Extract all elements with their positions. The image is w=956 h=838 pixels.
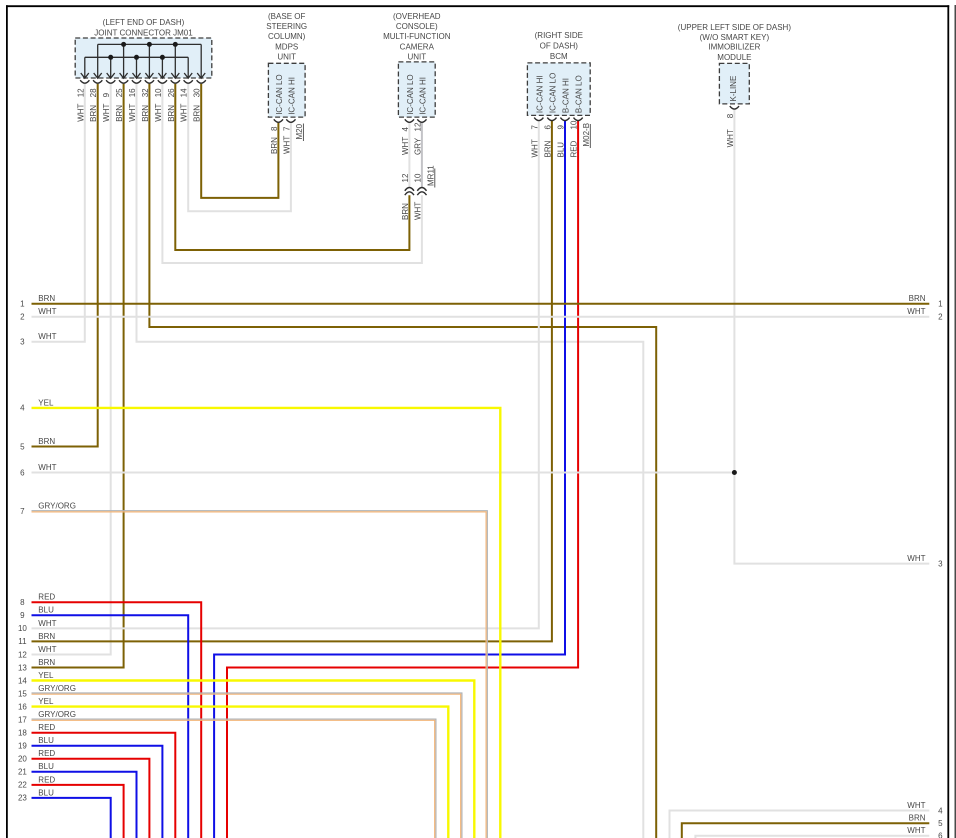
- svg-text:RED: RED: [38, 593, 55, 602]
- svg-text:WHT: WHT: [128, 103, 137, 121]
- svg-text:21: 21: [18, 768, 27, 777]
- svg-text:BLU: BLU: [557, 142, 566, 158]
- svg-text:11: 11: [18, 637, 27, 646]
- svg-text:1: 1: [938, 300, 943, 309]
- svg-text:6: 6: [20, 468, 25, 477]
- svg-text:12: 12: [76, 88, 85, 97]
- svg-text:GRY/ORG: GRY/ORG: [38, 684, 76, 693]
- svg-text:10: 10: [154, 88, 163, 97]
- svg-text:8: 8: [726, 113, 735, 118]
- svg-text:WHT: WHT: [907, 307, 925, 316]
- svg-text:B-CAN HI: B-CAN HI: [562, 78, 571, 113]
- svg-text:MR11: MR11: [426, 165, 435, 186]
- svg-text:BRN: BRN: [89, 105, 98, 122]
- svg-text:IC-CAN LO: IC-CAN LO: [548, 73, 557, 113]
- svg-text:BRN: BRN: [38, 294, 55, 303]
- svg-text:STEERING: STEERING: [266, 22, 307, 31]
- svg-text:BCM: BCM: [550, 52, 568, 61]
- svg-text:16: 16: [128, 88, 137, 97]
- svg-text:WHT: WHT: [413, 202, 422, 220]
- svg-text:12: 12: [401, 173, 410, 182]
- svg-text:BLU: BLU: [38, 788, 54, 797]
- svg-text:BRN: BRN: [909, 814, 926, 823]
- svg-text:BRN: BRN: [141, 105, 150, 122]
- svg-text:15: 15: [18, 689, 27, 698]
- svg-text:WHT: WHT: [401, 137, 410, 155]
- svg-text:CONSOLE): CONSOLE): [396, 22, 438, 31]
- svg-text:WHT: WHT: [907, 826, 925, 835]
- svg-text:OF DASH): OF DASH): [540, 42, 579, 51]
- svg-text:(W/O SMART KEY): (W/O SMART KEY): [700, 33, 770, 42]
- svg-text:2: 2: [20, 313, 25, 322]
- svg-text:4: 4: [20, 404, 25, 413]
- svg-text:9: 9: [557, 125, 566, 130]
- svg-text:M02-B: M02-B: [582, 123, 591, 147]
- svg-text:18: 18: [18, 729, 27, 738]
- svg-text:9: 9: [20, 611, 25, 620]
- svg-text:(UPPER LEFT SIDE OF DASH): (UPPER LEFT SIDE OF DASH): [678, 23, 792, 32]
- svg-text:MULTI-FUNCTION: MULTI-FUNCTION: [383, 32, 451, 41]
- svg-text:(LEFT END OF DASH): (LEFT END OF DASH): [103, 18, 185, 27]
- svg-text:WHT: WHT: [180, 103, 189, 121]
- svg-text:8: 8: [20, 598, 25, 607]
- svg-text:6: 6: [938, 832, 943, 838]
- svg-text:6: 6: [543, 125, 552, 130]
- svg-text:(BASE OF: (BASE OF: [268, 12, 305, 21]
- svg-text:RED: RED: [38, 775, 55, 784]
- svg-text:BRN: BRN: [38, 658, 55, 667]
- svg-text:YEL: YEL: [38, 398, 54, 407]
- svg-text:WHT: WHT: [907, 801, 925, 810]
- svg-text:COLUMN): COLUMN): [268, 32, 306, 41]
- svg-text:14: 14: [18, 676, 27, 685]
- svg-text:BRN: BRN: [543, 140, 552, 157]
- svg-text:WHT: WHT: [38, 332, 56, 341]
- svg-text:GRY/ORG: GRY/ORG: [38, 502, 76, 511]
- svg-text:GRY/ORG: GRY/ORG: [38, 710, 76, 719]
- svg-text:7: 7: [20, 507, 25, 516]
- svg-text:YEL: YEL: [38, 697, 54, 706]
- svg-text:JOINT CONNECTOR JM01: JOINT CONNECTOR JM01: [94, 28, 193, 37]
- svg-text:1: 1: [20, 300, 25, 309]
- svg-text:WHT: WHT: [38, 463, 56, 472]
- svg-text:MDPS: MDPS: [275, 43, 298, 52]
- svg-text:(OVERHEAD: (OVERHEAD: [393, 12, 441, 21]
- svg-text:WHT: WHT: [38, 307, 56, 316]
- svg-text:WHT: WHT: [907, 554, 925, 563]
- svg-text:WHT: WHT: [726, 129, 735, 147]
- svg-text:RED: RED: [38, 749, 55, 758]
- svg-text:WHT: WHT: [154, 103, 163, 121]
- svg-text:K-LINE: K-LINE: [729, 76, 738, 102]
- svg-text:20: 20: [18, 755, 27, 764]
- svg-text:13: 13: [18, 663, 27, 672]
- svg-text:10: 10: [18, 624, 27, 633]
- svg-text:30: 30: [193, 88, 202, 97]
- svg-text:(RIGHT SIDE: (RIGHT SIDE: [535, 31, 583, 40]
- svg-text:BLU: BLU: [38, 736, 54, 745]
- svg-text:BLU: BLU: [38, 762, 54, 771]
- svg-text:BRN: BRN: [167, 105, 176, 122]
- svg-text:19: 19: [18, 742, 27, 751]
- svg-text:5: 5: [20, 442, 25, 451]
- svg-text:WHT: WHT: [38, 645, 56, 654]
- svg-text:IC-CAN LO: IC-CAN LO: [275, 74, 284, 114]
- svg-text:28: 28: [89, 88, 98, 97]
- svg-text:4: 4: [401, 127, 410, 132]
- svg-text:IC-CAN HI: IC-CAN HI: [535, 75, 544, 113]
- svg-text:17: 17: [18, 716, 27, 725]
- svg-text:BRN: BRN: [38, 437, 55, 446]
- svg-text:26: 26: [167, 88, 176, 97]
- svg-text:BRN: BRN: [270, 137, 279, 154]
- svg-text:32: 32: [141, 88, 150, 97]
- svg-text:7: 7: [530, 125, 539, 130]
- svg-text:9: 9: [102, 92, 111, 97]
- svg-text:IC-CAN HI: IC-CAN HI: [287, 77, 296, 115]
- svg-text:IMMOBILIZER: IMMOBILIZER: [708, 43, 760, 52]
- svg-text:WHT: WHT: [282, 136, 291, 154]
- svg-text:8: 8: [270, 126, 279, 131]
- svg-text:CAMERA: CAMERA: [400, 43, 435, 52]
- svg-text:BLU: BLU: [38, 606, 54, 615]
- svg-text:10: 10: [413, 173, 422, 182]
- svg-text:2: 2: [938, 313, 943, 322]
- svg-text:WHT: WHT: [102, 103, 111, 121]
- svg-text:M20: M20: [295, 123, 304, 139]
- svg-text:MODULE: MODULE: [717, 53, 751, 62]
- svg-text:BRN: BRN: [38, 632, 55, 641]
- svg-text:22: 22: [18, 781, 27, 790]
- svg-text:BRN: BRN: [115, 105, 124, 122]
- svg-text:IC-CAN LO: IC-CAN LO: [406, 74, 415, 114]
- svg-text:WHT: WHT: [38, 619, 56, 628]
- svg-text:12: 12: [18, 650, 27, 659]
- svg-text:WHT: WHT: [76, 103, 85, 121]
- svg-text:3: 3: [20, 338, 25, 347]
- svg-text:14: 14: [180, 88, 189, 97]
- svg-text:7: 7: [282, 126, 291, 131]
- svg-text:UNIT: UNIT: [407, 52, 426, 61]
- svg-text:UNIT: UNIT: [277, 52, 296, 61]
- svg-text:12: 12: [413, 122, 422, 131]
- svg-text:RED: RED: [38, 723, 55, 732]
- svg-text:B-CAN LO: B-CAN LO: [575, 75, 584, 113]
- svg-text:BRN: BRN: [193, 105, 202, 122]
- svg-text:YEL: YEL: [38, 671, 54, 680]
- svg-text:23: 23: [18, 794, 27, 803]
- svg-text:BRN: BRN: [909, 294, 926, 303]
- svg-text:3: 3: [938, 559, 943, 568]
- svg-text:BRN: BRN: [401, 203, 410, 220]
- svg-text:IC-CAN HI: IC-CAN HI: [418, 77, 427, 115]
- svg-text:5: 5: [938, 819, 943, 828]
- svg-text:10: 10: [570, 120, 579, 129]
- svg-text:GRY: GRY: [413, 137, 422, 155]
- svg-text:RED: RED: [570, 140, 579, 157]
- svg-text:4: 4: [938, 806, 943, 815]
- svg-text:16: 16: [18, 702, 27, 711]
- svg-text:25: 25: [115, 88, 124, 97]
- svg-text:WHT: WHT: [530, 139, 539, 157]
